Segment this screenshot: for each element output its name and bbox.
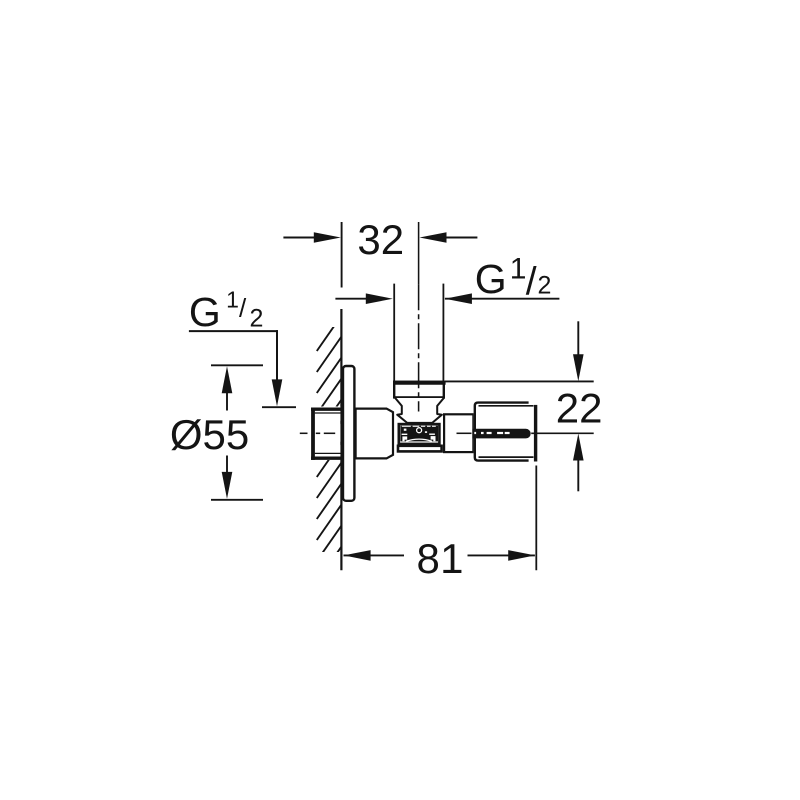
svg-text:8: 8 [417, 535, 440, 582]
wall hatching [317, 316, 342, 583]
svg-text:/: / [239, 293, 247, 323]
bonnet neck [395, 398, 444, 423]
dim G 1/2 left arrow row [335, 293, 392, 304]
svg-text:1: 1 [226, 287, 239, 313]
logo box [399, 424, 440, 444]
extension line 32 left [341, 222, 343, 288]
handle right edge bar [534, 405, 537, 462]
dim G 1/2 right [445, 253, 560, 304]
dim G 1/2 left label [189, 287, 296, 408]
svg-text:Ø55: Ø55 [170, 411, 249, 458]
svg-text:G: G [475, 256, 507, 302]
G1/2 left leader line and down arrow [189, 330, 278, 332]
svg-text:2: 2 [538, 271, 552, 299]
handle knob [474, 401, 538, 463]
dim 32 left arrow [283, 237, 314, 239]
horizontal centerline [300, 432, 594, 434]
outlet collar [394, 382, 444, 398]
logo marks [402, 426, 436, 442]
svg-text:1: 1 [440, 535, 463, 582]
vertical centerline / 32 right extension [418, 222, 420, 284]
wall flange escutcheon [343, 366, 354, 501]
dim diameter 55 [170, 365, 263, 500]
svg-text:1: 1 [510, 253, 527, 286]
bottom plate [398, 446, 442, 452]
dim 22 [445, 321, 603, 491]
handle slot [472, 429, 530, 439]
wall line / left extension of 81 [340, 309, 342, 570]
dim 32 right arrow [446, 237, 477, 239]
svg-text:32: 32 [357, 216, 404, 263]
svg-text:2: 2 [250, 304, 264, 332]
svg-text:G: G [189, 289, 221, 335]
outlet stub right [444, 414, 473, 452]
vertical outlet pipe walls [393, 284, 395, 381]
valve body left section [356, 409, 393, 459]
svg-text:22: 22 [556, 384, 603, 431]
81 right extension [535, 466, 537, 571]
inlet pipe G1/2 into wall [311, 407, 342, 461]
dim 32 [283, 216, 477, 263]
G1/2 right leader arrow [445, 298, 560, 300]
dim 81 [344, 535, 536, 582]
svg-text:/: / [526, 261, 537, 304]
